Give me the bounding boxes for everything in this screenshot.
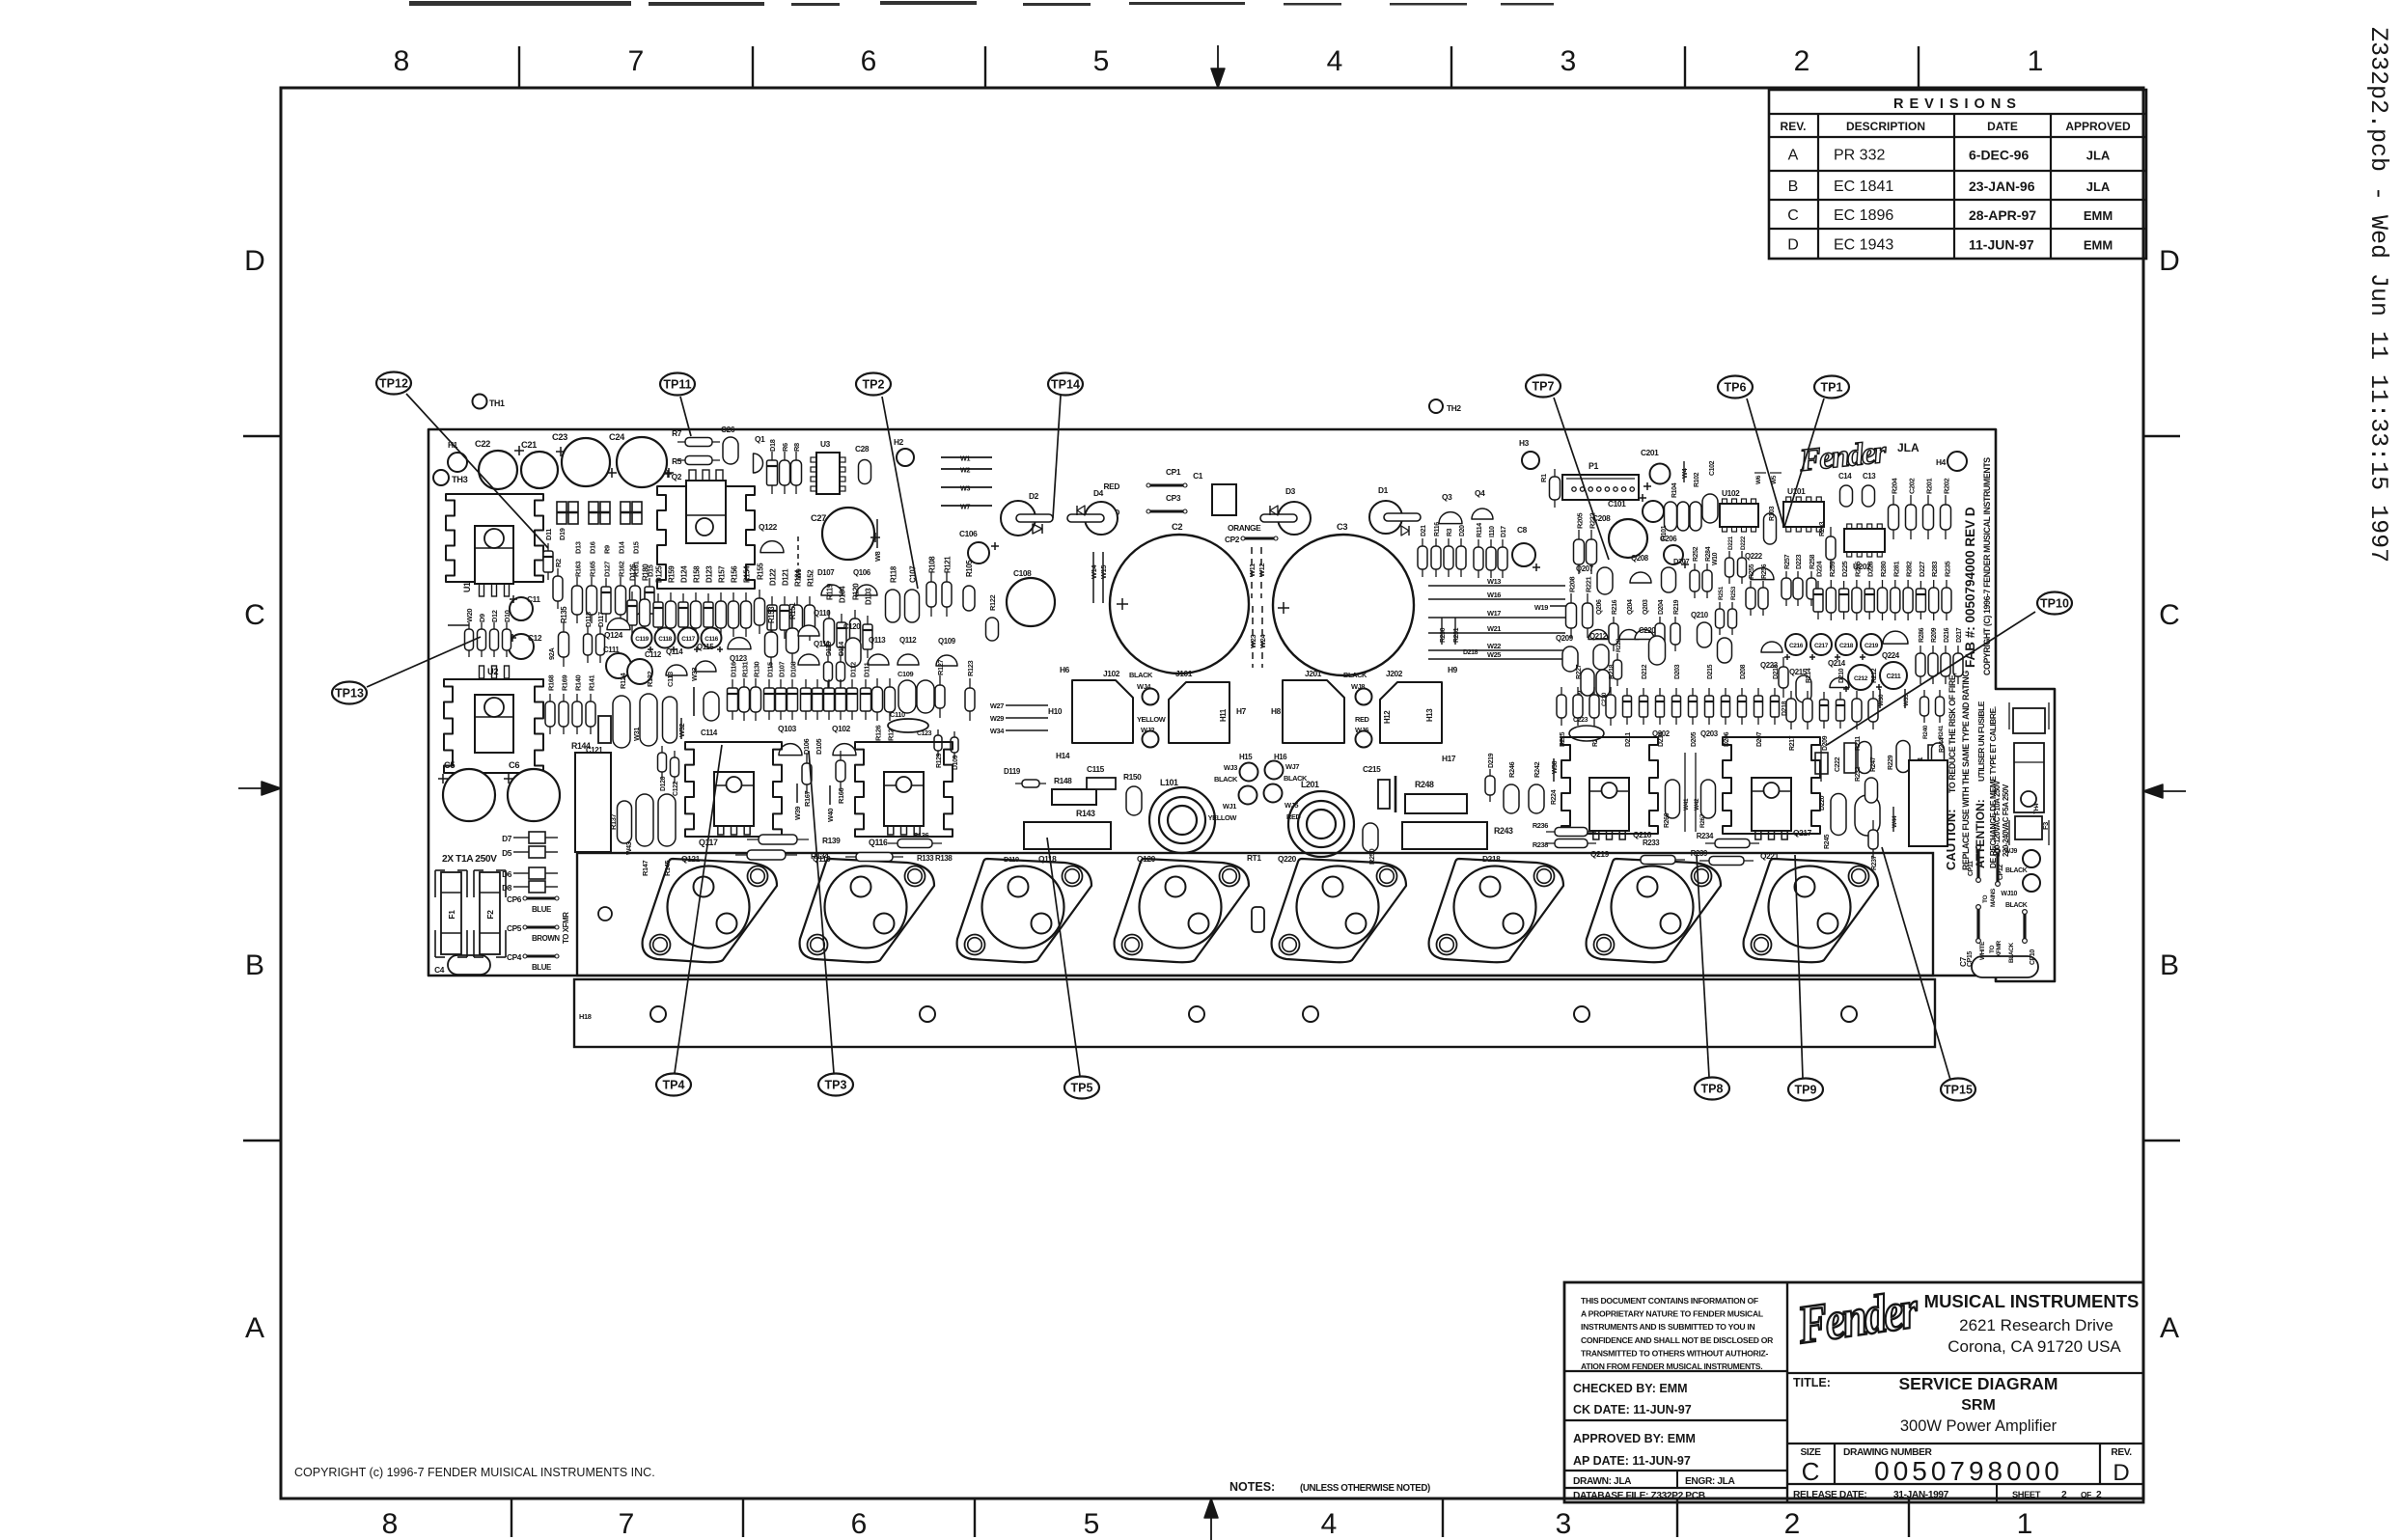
svg-text:D4: D4 (1093, 488, 1104, 498)
svg-text:Q124: Q124 (604, 630, 623, 640)
svg-text:R108: R108 (928, 556, 937, 573)
svg-text:C: C (1787, 207, 1799, 224)
svg-text:Q222: Q222 (1745, 552, 1763, 561)
svg-text:UTILISER UN FUSIBLE: UTILISER UN FUSIBLE (1976, 701, 1986, 782)
svg-text:C106: C106 (959, 529, 978, 538)
svg-text:BLUE: BLUE (532, 905, 551, 914)
svg-text:C215: C215 (1363, 764, 1381, 774)
svg-text:TP3: TP3 (825, 1079, 847, 1092)
svg-text:C222: C222 (1835, 756, 1841, 772)
svg-text:BLUE: BLUE (532, 963, 551, 972)
svg-text:D112: D112 (849, 662, 858, 677)
svg-text:R257: R257 (1784, 554, 1791, 569)
svg-text:Q116: Q116 (869, 838, 888, 847)
svg-text:R283: R283 (1930, 562, 1939, 577)
svg-text:R218: R218 (1609, 664, 1616, 679)
svg-text:D122: D122 (769, 568, 778, 586)
svg-text:Q210: Q210 (1691, 611, 1709, 619)
svg-text:300W Power Amplifier: 300W Power Amplifier (1900, 1417, 2058, 1435)
svg-text:WJ5: WJ5 (1284, 801, 1298, 810)
svg-text:C1: C1 (1193, 471, 1203, 481)
svg-text:5: 5 (1084, 1508, 1100, 1540)
svg-text:R163: R163 (574, 562, 583, 577)
svg-text:YELLOW: YELLOW (1137, 715, 1167, 724)
svg-text:D209: D209 (1822, 735, 1829, 751)
svg-text:U3: U3 (820, 439, 831, 449)
svg-text:TP8: TP8 (1701, 1083, 1724, 1096)
svg-text:R141: R141 (588, 675, 596, 691)
svg-text:Q207: Q207 (1576, 564, 1594, 573)
svg-text:SRM: SRM (1961, 1397, 1996, 1414)
svg-text:CHECKED BY: EMM: CHECKED BY: EMM (1573, 1382, 1688, 1395)
svg-text:R129: R129 (936, 753, 943, 768)
svg-text:R8: R8 (792, 443, 801, 452)
svg-text:H2: H2 (894, 437, 904, 447)
svg-text:R221: R221 (1585, 577, 1593, 592)
svg-text:D103: D103 (865, 588, 873, 605)
svg-text:Q115: Q115 (697, 643, 714, 651)
svg-text:R216: R216 (1612, 599, 1618, 615)
svg-text:R242: R242 (1533, 762, 1541, 778)
svg-text:BLACK: BLACK (2008, 943, 2015, 963)
svg-text:D228: D228 (1866, 562, 1875, 577)
svg-text:R286: R286 (1919, 627, 1925, 643)
svg-text:R6: R6 (781, 443, 789, 452)
svg-text:6: 6 (851, 1508, 868, 1540)
svg-text:TP7: TP7 (1533, 380, 1555, 394)
svg-text:W7: W7 (960, 503, 971, 511)
svg-text:C12: C12 (528, 633, 542, 643)
svg-text:W11: W11 (1248, 564, 1257, 577)
svg-text:D12: D12 (490, 610, 499, 622)
svg-text:W13: W13 (1487, 577, 1501, 586)
svg-text:R232: R232 (1855, 766, 1862, 782)
svg-text:R136: R136 (913, 831, 928, 839)
svg-text:D105: D105 (815, 739, 823, 755)
svg-text:J101: J101 (1175, 669, 1193, 678)
svg-text:W14: W14 (1090, 564, 1098, 579)
svg-text:Q203: Q203 (1700, 729, 1719, 738)
svg-text:C219: C219 (1864, 643, 1879, 649)
svg-text:WJ3: WJ3 (1224, 763, 1237, 772)
svg-text:11-JUN-97: 11-JUN-97 (1969, 237, 2034, 253)
svg-text:H4: H4 (1936, 457, 1947, 467)
svg-text:R211: R211 (1855, 736, 1862, 751)
svg-text:W6: W6 (1755, 475, 1762, 484)
svg-text:31-JAN-1997: 31-JAN-1997 (1893, 1490, 1949, 1500)
svg-text:D216: D216 (1944, 627, 1950, 643)
svg-text:92A: 92A (547, 647, 556, 660)
svg-text:Q119: Q119 (813, 854, 831, 864)
svg-text:R219: R219 (1673, 599, 1680, 615)
svg-text:DATABASE FILE: Z332P2.P: DATABASE FILE: Z332P2.PCB (1573, 1491, 1705, 1501)
svg-text:R212: R212 (1871, 668, 1878, 683)
svg-text:Q1: Q1 (755, 434, 765, 444)
svg-text:R250: R250 (1367, 849, 1376, 865)
svg-text:F2: F2 (485, 910, 495, 920)
svg-text:C119: C119 (635, 636, 649, 643)
svg-text:C111: C111 (603, 646, 620, 654)
svg-text:SERVICE DIAGRAM: SERVICE DIAGRAM (1899, 1374, 2058, 1393)
svg-text:R122: R122 (988, 595, 997, 611)
svg-text:D210: D210 (1838, 668, 1845, 683)
svg-text:R208: R208 (1568, 577, 1577, 592)
svg-text:W1: W1 (960, 454, 971, 463)
svg-text:D: D (2113, 1460, 2129, 1486)
svg-text:D111: D111 (863, 662, 871, 677)
svg-text:C3: C3 (1337, 522, 1347, 532)
svg-text:W29: W29 (990, 714, 1004, 723)
svg-text:W34: W34 (990, 727, 1005, 735)
svg-text:D218: D218 (1482, 854, 1501, 864)
svg-text:Q102: Q102 (832, 724, 851, 733)
svg-text:Q113: Q113 (869, 636, 886, 645)
svg-text:R144: R144 (571, 741, 591, 751)
svg-text:BLACK: BLACK (2005, 867, 2028, 874)
svg-text:TP6: TP6 (1725, 381, 1747, 395)
svg-text:R156: R156 (731, 565, 739, 583)
svg-text:Q118: Q118 (1038, 854, 1057, 864)
svg-text:R267: R267 (1699, 813, 1706, 828)
svg-text:W41: W41 (1683, 798, 1690, 811)
svg-text:C220: C220 (1639, 626, 1656, 635)
svg-text:W15: W15 (1099, 565, 1108, 579)
svg-text:CP12: CP12 (1998, 865, 2004, 880)
svg-text:CP10: CP10 (2030, 949, 2036, 965)
svg-text:D125: D125 (655, 565, 664, 583)
svg-text:H9: H9 (1448, 665, 1458, 674)
svg-text:I110: I110 (1489, 526, 1496, 537)
svg-text:R201: R201 (1925, 479, 1934, 494)
svg-text:TP12: TP12 (379, 377, 408, 391)
svg-text:D: D (2159, 245, 2180, 277)
svg-text:4: 4 (1327, 45, 1343, 77)
svg-text:W40: W40 (826, 809, 835, 822)
svg-text:W27: W27 (990, 701, 1004, 710)
svg-text:CP6: CP6 (507, 894, 522, 904)
svg-text:CK DATE: 11-JUN-97: CK DATE: 11-JUN-97 (1573, 1403, 1692, 1416)
svg-text:W4: W4 (1680, 467, 1689, 479)
svg-text:D21: D21 (1421, 525, 1427, 536)
svg-text:R148: R148 (1054, 776, 1072, 785)
svg-text:CP15: CP15 (1967, 951, 1974, 967)
svg-text:C115: C115 (1087, 764, 1105, 774)
svg-text:TP15: TP15 (1944, 1084, 1973, 1097)
svg-text:APPROVED: APPROVED (2065, 120, 2131, 133)
svg-text:D223: D223 (1796, 554, 1803, 569)
svg-text:4: 4 (1321, 1508, 1338, 1540)
svg-text:C2: C2 (1172, 522, 1182, 532)
svg-text:C206: C206 (1660, 535, 1677, 543)
svg-text:W23: W23 (1249, 635, 1257, 648)
svg-text:W17: W17 (1487, 609, 1501, 618)
svg-text:R236: R236 (1533, 821, 1548, 830)
svg-text:Q123: Q123 (730, 654, 748, 663)
svg-text:R204: R204 (1891, 478, 1899, 494)
svg-text:C109: C109 (898, 670, 913, 678)
svg-text:Corona, CA 91720 USA: Corona, CA 91720 USA (1947, 1337, 2121, 1356)
svg-text:Q224: Q224 (1882, 651, 1900, 660)
svg-text:D126: D126 (629, 564, 638, 581)
svg-text:R168: R168 (547, 675, 556, 691)
svg-text:23-JAN-96: 23-JAN-96 (1969, 179, 2035, 194)
svg-text:D116: D116 (730, 662, 738, 677)
svg-text:D127: D127 (603, 562, 612, 577)
svg-text:R252: R252 (1693, 546, 1699, 562)
svg-text:R150: R150 (1123, 772, 1142, 782)
svg-text:D211: D211 (1625, 732, 1632, 747)
svg-text:C216: C216 (1789, 643, 1804, 649)
svg-text:C28: C28 (855, 444, 870, 454)
svg-text:D204: D204 (1658, 599, 1665, 615)
svg-text:D208: D208 (1740, 664, 1747, 679)
svg-text:R9: R9 (603, 545, 612, 554)
svg-text:J102: J102 (1103, 669, 1120, 678)
svg-text:C116: C116 (704, 636, 718, 643)
svg-text:D212: D212 (1642, 664, 1648, 679)
svg-text:D120: D120 (660, 776, 667, 791)
svg-text:C212: C212 (1854, 675, 1868, 682)
svg-text:Q219: Q219 (1590, 849, 1610, 859)
svg-text:BLACK: BLACK (1129, 671, 1153, 679)
svg-text:Q120: Q120 (1137, 854, 1156, 864)
svg-text:ATTENTION:: ATTENTION: (1974, 799, 1987, 868)
svg-text:R151: R151 (788, 602, 797, 619)
svg-text:5: 5 (1093, 45, 1110, 77)
svg-text:D15: D15 (632, 541, 641, 554)
svg-text:D217: D217 (1956, 627, 1963, 643)
svg-text:TP10: TP10 (2040, 597, 2069, 611)
svg-text:BLACK: BLACK (1284, 774, 1308, 783)
svg-text:D11: D11 (544, 529, 553, 540)
svg-text:R155: R155 (757, 563, 765, 580)
svg-text:D222: D222 (1740, 536, 1747, 550)
svg-text:C6: C6 (509, 760, 519, 770)
svg-text:D221: D221 (1727, 536, 1734, 550)
svg-text:R139: R139 (822, 836, 841, 845)
svg-text:R255: R255 (1749, 564, 1755, 579)
svg-text:R237: R237 (1871, 855, 1878, 870)
svg-text:BLACK: BLACK (1214, 775, 1238, 784)
svg-text:W16: W16 (1487, 591, 1501, 599)
svg-text:TO REDUCE THE RISK OF FIRE,: TO REDUCE THE RISK OF FIRE, (1947, 674, 1957, 793)
svg-text:RED: RED (1355, 715, 1370, 724)
svg-text:REV.: REV. (2111, 1447, 2132, 1458)
svg-text:R130: R130 (753, 662, 761, 677)
svg-text:WHITE: WHITE (1979, 941, 1986, 960)
svg-text:D5: D5 (502, 848, 512, 858)
svg-text:TO: TO (1989, 946, 1996, 953)
svg-text:R180: R180 (642, 564, 650, 581)
svg-text:R233: R233 (1643, 839, 1660, 847)
svg-text:REPLACE FUSE WITH THE SAME TYP: REPLACE FUSE WITH THE SAME TYPE AND RATI… (1961, 671, 1971, 870)
svg-text:2: 2 (2061, 1490, 2067, 1500)
svg-text:R229: R229 (1888, 755, 1894, 770)
svg-text:U2: U2 (487, 667, 498, 676)
svg-text:W25: W25 (1487, 650, 1501, 659)
svg-text:R2: R2 (554, 559, 563, 567)
svg-text:XFMR: XFMR (1996, 940, 2002, 957)
svg-text:8: 8 (394, 45, 410, 77)
svg-text:0050798000: 0050798000 (1874, 1456, 2063, 1486)
svg-text:C122: C122 (673, 781, 679, 796)
svg-text:R224: R224 (1551, 789, 1558, 805)
svg-text:R245: R245 (1824, 834, 1831, 849)
svg-text:C8: C8 (1517, 525, 1528, 535)
svg-text:BLACK: BLACK (1343, 671, 1367, 679)
svg-text:C101: C101 (1608, 499, 1626, 509)
svg-text:D123: D123 (705, 565, 714, 583)
svg-text:W19: W19 (1534, 603, 1548, 612)
svg-text:EC 1943: EC 1943 (1834, 237, 1893, 254)
svg-text:R284: R284 (1705, 546, 1712, 562)
svg-text:L101: L101 (1160, 778, 1178, 787)
svg-text:TH3: TH3 (452, 475, 468, 484)
svg-text:R244: R244 (1939, 737, 1946, 753)
svg-text:H3: H3 (1519, 438, 1530, 448)
svg-text:DATE: DATE (1987, 120, 2018, 133)
svg-text:R240: R240 (1922, 725, 1929, 739)
svg-text:Q3: Q3 (1442, 492, 1452, 502)
svg-text:W20: W20 (465, 609, 474, 622)
svg-text:D121: D121 (782, 568, 790, 586)
svg-text:TH4: TH4 (2033, 803, 2040, 814)
svg-text:R285: R285 (1853, 562, 1862, 577)
svg-text:R243: R243 (1494, 826, 1513, 836)
svg-text:TP1: TP1 (1821, 381, 1843, 395)
svg-text:D20: D20 (1459, 525, 1466, 536)
svg-text:AP DATE: 11-JUN-97: AP DATE: 11-JUN-97 (1573, 1454, 1691, 1468)
svg-text:J202: J202 (1386, 669, 1403, 678)
svg-text:R157: R157 (718, 565, 727, 583)
svg-text:TP4: TP4 (663, 1079, 685, 1092)
svg-text:R116: R116 (1434, 522, 1441, 536)
svg-text:C22: C22 (475, 439, 490, 449)
svg-text:D16: D16 (589, 541, 597, 554)
svg-text:C211: C211 (1887, 674, 1901, 680)
svg-text:H8: H8 (1271, 706, 1282, 716)
svg-text:C217: C217 (1814, 643, 1829, 649)
svg-text:EC 1841: EC 1841 (1834, 179, 1893, 195)
svg-text:A PROPRIETARY NATURE TO FENDER: A PROPRIETARY NATURE TO FENDER MUSICAL (1581, 1309, 1763, 1319)
svg-text:EC 1896: EC 1896 (1834, 207, 1893, 224)
svg-text:R248: R248 (1415, 780, 1434, 789)
svg-text:2: 2 (1784, 1508, 1801, 1540)
svg-text:Q204: Q204 (1627, 599, 1634, 615)
svg-text:EMM: EMM (2084, 238, 2113, 253)
svg-text:SHEET: SHEET (2012, 1490, 2041, 1499)
svg-text:R140: R140 (574, 675, 583, 691)
svg-text:R256: R256 (1761, 564, 1768, 579)
svg-text:R184: R184 (794, 569, 803, 587)
svg-text:Q212: Q212 (1589, 632, 1608, 641)
svg-text:DRAWN: JLA: DRAWN: JLA (1573, 1476, 1632, 1487)
svg-text:D18: D18 (768, 439, 777, 452)
svg-text:R231: R231 (1453, 627, 1460, 643)
svg-text:Z332p2.pcb - Wed Jun 11 11:33:: Z332p2.pcb - Wed Jun 11 11:33:15 1997 (2364, 27, 2392, 563)
svg-text:C201: C201 (1641, 448, 1659, 457)
svg-text:D124: D124 (680, 565, 689, 583)
svg-text:B: B (1788, 179, 1799, 195)
svg-text:W8: W8 (873, 551, 882, 562)
svg-text:C120: C120 (843, 622, 861, 631)
svg-text:6: 6 (861, 45, 877, 77)
svg-text:H14: H14 (1056, 751, 1070, 760)
svg-text:J201: J201 (1305, 669, 1322, 678)
svg-text:H15: H15 (1239, 753, 1253, 761)
svg-text:D119: D119 (1004, 855, 1019, 864)
svg-text:R118: R118 (890, 565, 898, 583)
svg-text:TP14: TP14 (1051, 378, 1080, 392)
svg-text:D115: D115 (766, 662, 775, 677)
svg-text:R153: R153 (767, 606, 776, 623)
svg-text:H16: H16 (1274, 753, 1287, 761)
svg-text:ENGR: JLA: ENGR: JLA (1685, 1476, 1735, 1487)
svg-text:A: A (1788, 148, 1799, 164)
svg-text:CAUTION:: CAUTION: (1944, 809, 1958, 870)
svg-text:TP9: TP9 (1795, 1084, 1817, 1097)
svg-text:R105: R105 (965, 560, 974, 577)
svg-text:H7: H7 (1236, 706, 1247, 716)
svg-text:Q114: Q114 (666, 647, 683, 656)
svg-text:D215: D215 (1707, 664, 1714, 679)
svg-text:R132: R132 (646, 672, 654, 687)
svg-text:W32: W32 (677, 724, 686, 737)
svg-text:C4: C4 (434, 965, 445, 975)
svg-text:REV.: REV. (1781, 120, 1807, 133)
svg-text:R159: R159 (668, 565, 677, 583)
svg-text:BROWN: BROWN (532, 934, 560, 943)
svg-text:C223: C223 (1573, 717, 1588, 724)
svg-text:R127: R127 (936, 660, 945, 675)
svg-text:W24: W24 (1258, 634, 1267, 648)
svg-text:TP5: TP5 (1071, 1082, 1093, 1095)
svg-text:C113: C113 (666, 672, 675, 687)
svg-text:CP2: CP2 (1225, 535, 1240, 544)
svg-text:OF: OF (2081, 1490, 2091, 1499)
svg-text:W33: W33 (690, 668, 699, 681)
svg-text:C118: C118 (658, 636, 672, 643)
svg-text:8: 8 (382, 1508, 399, 1540)
svg-text:R209: R209 (1931, 627, 1938, 643)
svg-text:Q122: Q122 (759, 522, 778, 532)
svg-text:R135: R135 (560, 606, 568, 623)
svg-text:TO: TO (1982, 895, 1989, 903)
svg-text:3: 3 (1556, 1508, 1572, 1540)
svg-text:R235: R235 (1944, 562, 1952, 577)
svg-text:D227: D227 (1918, 562, 1926, 577)
svg-text:D8: D8 (502, 883, 512, 893)
svg-text:R104: R104 (1671, 482, 1678, 498)
svg-text:Q206: Q206 (1596, 599, 1603, 615)
svg-text:R162: R162 (618, 562, 626, 577)
svg-text:C26: C26 (721, 425, 735, 434)
svg-text:D3: D3 (1285, 486, 1296, 496)
svg-text:C: C (1802, 1457, 1820, 1486)
svg-text:R3: R3 (1447, 528, 1453, 536)
svg-text:Q215: Q215 (1789, 668, 1808, 676)
svg-text:D13: D13 (574, 541, 583, 554)
svg-text:C: C (244, 599, 265, 631)
svg-text:RELEASE DATE:: RELEASE DATE: (1793, 1490, 1866, 1500)
svg-text:TO XFMR: TO XFMR (562, 912, 570, 944)
svg-text:D207: D207 (1756, 731, 1763, 747)
svg-text:TRANSMITTED TO OTHERS WITHOUT: TRANSMITTED TO OTHERS WITHOUT AUTHORIZ- (1581, 1348, 1768, 1358)
svg-text:CP1: CP1 (1166, 467, 1181, 477)
svg-text:DESCRIPTION: DESCRIPTION (1846, 120, 1925, 133)
svg-text:2: 2 (1794, 45, 1810, 77)
svg-text:Q221: Q221 (1760, 851, 1780, 861)
